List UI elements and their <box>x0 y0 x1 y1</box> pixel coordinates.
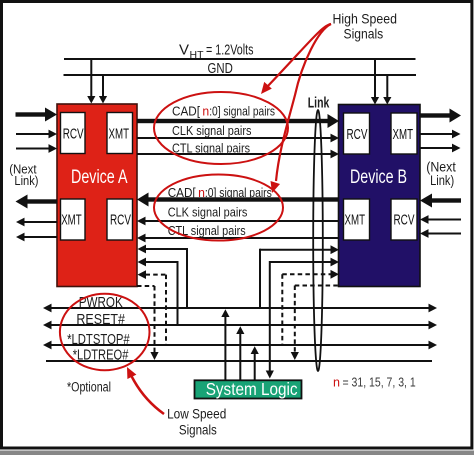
svg-text:Signals: Signals <box>179 421 217 437</box>
wire CAD2 signal pairs B to A (thick) <box>137 193 339 207</box>
high speed ellipse 2 <box>154 175 283 241</box>
svg-text:Signals: Signals <box>344 25 384 41</box>
wire CTL2 signal pairs B to A <box>137 234 339 243</box>
wire system logic to LDTSTOP# <box>251 346 259 380</box>
svg-text:Link: Link <box>308 95 330 112</box>
svg-text:RCV: RCV <box>63 127 84 143</box>
wire VHT drop into device A <box>87 59 95 104</box>
svg-text:RCV: RCV <box>394 213 415 229</box>
wire RESET# riser to device A <box>138 258 178 325</box>
svg-text:Device A: Device A <box>71 167 128 188</box>
svg-text:V: V <box>179 42 189 59</box>
red callout arrow to high speed ellipse 1 <box>261 24 331 94</box>
svg-text:CLK signal pairs: CLK signal pairs <box>168 206 248 220</box>
wire next-link output arrow 2 out of device B XMT <box>420 144 461 153</box>
wire next-link output arrow 2 out of device A XMT <box>16 233 57 242</box>
device B XMT box (bottom-left) <box>344 199 370 240</box>
wire next-link input arrow thick into device B <box>420 194 461 208</box>
svg-text:Low Speed: Low Speed <box>167 406 226 422</box>
svg-text:= 31, 15, 7, 3, 1: = 31, 15, 7, 3, 1 <box>343 376 416 390</box>
device A RCV box (bottom-right) <box>107 199 133 240</box>
system logic block <box>195 379 302 399</box>
svg-text:XMT: XMT <box>61 213 82 229</box>
device B block <box>339 105 421 287</box>
wire CLK1 signal pairs A to B <box>137 134 339 143</box>
wire PWROK riser to device A <box>138 245 188 308</box>
wire LDTSTOP# dashed riser to device A <box>138 270 167 345</box>
svg-text:Link): Link) <box>14 173 38 188</box>
svg-text:n: n <box>333 376 340 390</box>
wire next-link input arrow thick into device A <box>16 108 58 122</box>
device A XMT box (bottom-left) <box>61 199 86 240</box>
svg-text:CAD[: CAD[ <box>172 105 200 119</box>
wire next-link output arrow out of device A XMT <box>16 218 57 227</box>
wire GND drop into device A <box>99 75 107 104</box>
svg-text:CLK signal pairs: CLK signal pairs <box>172 124 251 138</box>
svg-text::0] signal pairs: :0] signal pairs <box>209 105 275 119</box>
wire next-link input arrow 2 into device B RCV <box>420 229 461 238</box>
wire CLK2 signal pairs B to A <box>137 217 339 226</box>
svg-text:XMT: XMT <box>109 127 130 143</box>
label Low Speed Signals <box>167 406 226 438</box>
link ellipse <box>313 110 323 371</box>
svg-text:CTL signal pairs: CTL signal pairs <box>172 141 250 155</box>
svg-text:Device B: Device B <box>350 167 407 188</box>
wire PWROK line <box>43 304 437 313</box>
wire CAD1 signal pairs A to B (thick) <box>137 114 339 128</box>
wire VHT drop into device B <box>371 59 379 105</box>
wire GND rail <box>64 74 417 76</box>
wire next-link input arrow into device A RCV <box>16 130 57 139</box>
wire LDTREQ# dashed drop from device A <box>137 286 159 360</box>
device A block <box>57 104 137 287</box>
device A RCV box (top-left) <box>61 113 86 154</box>
device B RCV box (top-left) <box>344 113 370 154</box>
label (Next Link) left <box>9 162 38 189</box>
svg-text:CTL signal pairs: CTL signal pairs <box>168 224 246 238</box>
wire LDTREQ# line <box>46 360 432 362</box>
wire VHT power rail <box>64 58 416 60</box>
svg-text:Link): Link) <box>430 172 454 188</box>
wire LDTSTOP# dashed riser to device B <box>282 270 339 345</box>
wire system logic to RESET# <box>236 326 244 380</box>
red callout arrow to low speed ellipse <box>127 367 164 414</box>
wire system logic to PWROK <box>221 309 229 380</box>
svg-text:CAD[: CAD[ <box>168 186 196 200</box>
label VHT = 1.2Volts <box>179 42 254 62</box>
device B XMT box (top-right) <box>391 113 417 154</box>
low speed ellipse <box>60 294 150 371</box>
svg-text:RESET#: RESET# <box>76 312 125 328</box>
wire GND drop into device B <box>383 75 391 105</box>
svg-text:XMT: XMT <box>393 127 414 143</box>
wire LDTSTOP# line <box>43 341 437 350</box>
svg-text:*Optional: *Optional <box>67 380 111 395</box>
svg-text:RCV: RCV <box>110 213 131 229</box>
wire PWROK riser to device B <box>260 245 339 308</box>
svg-text:*LDTSTOP#: *LDTSTOP# <box>67 332 130 348</box>
wire CTL1 signal pairs A to B <box>137 150 339 159</box>
svg-text:High Speed: High Speed <box>333 10 398 26</box>
svg-text:HT: HT <box>190 49 205 61</box>
label CAD2 <box>168 186 272 200</box>
svg-text:*LDTREQ#: *LDTREQ# <box>73 348 129 364</box>
wire RESET# line <box>43 321 437 330</box>
wire RESET# riser to device B and LDTREQ# drop to system logic <box>266 258 339 379</box>
label CAD1 <box>172 105 275 119</box>
svg-text:GND: GND <box>208 61 233 77</box>
label High Speed Signals <box>333 10 398 41</box>
svg-text:RCV: RCV <box>347 127 368 143</box>
wire LDTREQ# dashed drop from device B <box>291 286 339 361</box>
label n values <box>333 376 416 390</box>
svg-text:XMT: XMT <box>345 213 366 229</box>
wire next-link input arrow 2 into device A RCV <box>16 144 57 153</box>
gray window edge bar <box>0 451 474 456</box>
svg-text:System Logic: System Logic <box>206 379 298 399</box>
red callout arrow to high speed ellipse 2 <box>271 24 332 193</box>
device B RCV box (bottom-right) <box>391 199 417 240</box>
svg-text:= 1.2Volts: = 1.2Volts <box>206 43 254 59</box>
wire next-link output arrow thick out of device B <box>420 109 461 123</box>
wire next-link output arrow out of device B XMT <box>420 130 461 139</box>
wire next-link input arrow into device B RCV <box>420 215 461 224</box>
svg-text::0] signal pairs: :0] signal pairs <box>205 186 272 200</box>
wire next-link output arrow thick out of device A <box>16 195 58 209</box>
device A XMT box (top-right) <box>107 113 133 154</box>
label (Next Link) right <box>426 159 456 188</box>
high speed ellipse 1 <box>154 92 288 164</box>
